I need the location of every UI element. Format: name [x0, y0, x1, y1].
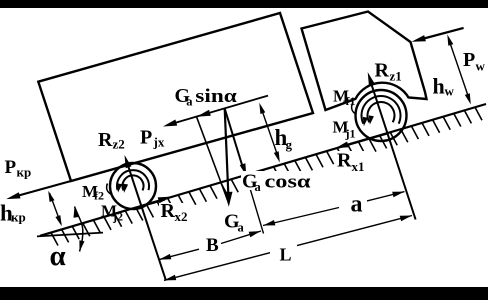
dimension h_g: [259, 103, 280, 163]
svg-text:a: a: [351, 192, 363, 218]
svg-text:z2: z2: [113, 137, 125, 152]
dimension a: [263, 192, 405, 226]
reaction R_x1 arrow: [336, 133, 388, 148]
svg-text:h: h: [433, 74, 445, 99]
force P_kp arrow: [6, 181, 71, 199]
road surface line: [40, 104, 486, 236]
svg-text:R: R: [337, 150, 352, 172]
label halo R_x2: [159, 203, 191, 220]
reaction R_x2 arrow: [141, 197, 171, 207]
label R_x2: [161, 200, 188, 224]
label G_a sin alpha: [175, 85, 238, 109]
svg-text:a: a: [238, 221, 245, 235]
svg-text:cosα: cosα: [265, 172, 311, 193]
dimension h_kp: [48, 191, 62, 227]
label h_g: [275, 125, 293, 152]
svg-text:α: α: [50, 240, 66, 272]
label M_f1: [333, 87, 356, 109]
svg-text:R: R: [98, 129, 113, 151]
truck bed body: [38, 13, 313, 181]
label R_x1: [337, 150, 365, 175]
label h_kp: [0, 201, 26, 226]
CG extension line below road: [246, 176, 263, 234]
svg-text:P: P: [463, 49, 475, 71]
parallelogram side: [197, 117, 228, 200]
label alpha: [50, 240, 66, 272]
force G_a cos(alpha) arrow: [225, 109, 247, 176]
svg-text:j2: j2: [112, 210, 123, 224]
label halo G_a cos alpha: [241, 171, 312, 190]
svg-text:jx: jx: [153, 135, 165, 150]
svg-text:R: R: [161, 200, 176, 222]
angle alpha double arrow: [74, 207, 85, 252]
label M_j2: [101, 201, 123, 223]
svg-text:x2: x2: [175, 209, 188, 224]
force P_jx arrow: [163, 120, 177, 127]
label M_f2: [82, 182, 104, 203]
label h_w: [433, 74, 455, 99]
dimension h_w: [447, 35, 471, 105]
label R_z2: [98, 129, 125, 152]
dimension L: [164, 216, 412, 281]
M_f1 leader squiggle: [352, 104, 357, 115]
svg-text:a: a: [255, 180, 262, 194]
label P_jx: [140, 127, 165, 150]
svg-text:P: P: [140, 127, 152, 149]
horizontal reference line: [37, 233, 103, 237]
M_f2 leader squiggle: [107, 184, 112, 195]
svg-text:g: g: [286, 137, 293, 152]
svg-text:w: w: [445, 84, 455, 99]
svg-text:f2: f2: [94, 189, 104, 203]
label a: [351, 192, 363, 218]
front wheel: [356, 90, 407, 141]
force G_a sin(alpha) arrow: [197, 110, 211, 117]
road hatching: [51, 107, 482, 245]
wind force P_w arrow: [412, 28, 464, 42]
reaction R_z1 arrow / front extension line: [368, 72, 416, 219]
label G_a cos alpha: [242, 171, 311, 195]
svg-text:j1: j1: [345, 127, 356, 141]
moment M_f1 arc: [362, 96, 401, 126]
rear wheel: [110, 163, 156, 209]
label R_z1: [375, 60, 402, 84]
label P_w: [463, 49, 486, 74]
reaction R_z2 arrow / rear extension line: [125, 155, 166, 280]
moment M_j1 arc: [367, 102, 394, 125]
CG axis line: [167, 96, 268, 126]
label P_kp: [5, 157, 32, 180]
svg-text:a: a: [186, 95, 193, 109]
svg-text:кр: кр: [17, 165, 32, 180]
dimension B: [159, 231, 261, 260]
label M_j1: [333, 118, 356, 141]
svg-text:кр: кр: [11, 210, 26, 225]
svg-text:L: L: [280, 245, 292, 265]
svg-text:P: P: [5, 157, 17, 178]
label halo R_x1: [336, 151, 367, 172]
truck cab: [302, 12, 427, 111]
svg-text:f1: f1: [346, 94, 356, 108]
moment M_j2 arc: [123, 175, 144, 192]
svg-text:sinα: sinα: [195, 86, 237, 107]
label G_a: [224, 211, 245, 235]
svg-text:B: B: [206, 235, 219, 256]
weight G_a arrow: [224, 109, 232, 207]
svg-text:x1: x1: [352, 159, 365, 174]
svg-text:R: R: [375, 60, 390, 82]
label L: [280, 245, 292, 265]
label B: [206, 235, 219, 256]
svg-text:z1: z1: [390, 69, 402, 84]
svg-text:w: w: [476, 59, 486, 74]
moment M_f2 arc: [117, 170, 149, 192]
